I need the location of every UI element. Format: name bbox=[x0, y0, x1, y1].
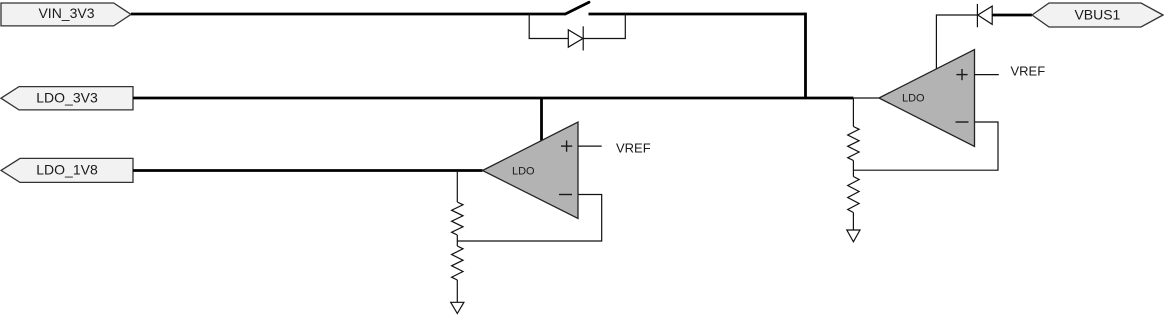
net flag VBUS1 bbox=[1032, 3, 1163, 27]
op-amp U2 (right LDO) bbox=[879, 50, 975, 147]
wire switch right contact to corner bbox=[589, 13, 806, 16]
wire thick branch into left op-amp bbox=[540, 98, 543, 141]
wire left divider top leg bbox=[456, 171, 458, 203]
svg-text:LDO: LDO bbox=[902, 93, 925, 105]
wire right feedback (minus input to divider tap) bbox=[853, 122, 998, 170]
svg-text:VBUS1: VBUS1 bbox=[1074, 7, 1120, 23]
op-amp U1 (left LDO) bbox=[483, 122, 579, 219]
net flag LDO_3V3 bbox=[1, 87, 133, 110]
wire right op-amp top branch bbox=[936, 15, 977, 70]
wire VREF stub (left) bbox=[578, 145, 602, 147]
wire thin to right op-amp input bbox=[853, 97, 879, 99]
svg-text:VIN_3V3: VIN_3V3 bbox=[38, 5, 94, 21]
diode D1 (bypass) bbox=[568, 26, 583, 50]
switch S1 blade bbox=[566, 2, 589, 14]
resistor R3 (right top) bbox=[848, 127, 859, 161]
wire right divider top leg bbox=[852, 98, 854, 127]
resistor R1 (left top) bbox=[452, 202, 463, 235]
wire right divider mid leg bbox=[852, 161, 854, 177]
wire LDO_1V8 net bbox=[133, 169, 483, 172]
wire left divider bottom leg bbox=[456, 280, 458, 302]
pin + (U1) bbox=[561, 141, 572, 152]
ground (right) bbox=[847, 230, 860, 242]
net flag LDO_1V8 bbox=[1, 158, 133, 182]
diode D2 (to VBUS1) bbox=[977, 4, 992, 27]
wire left divider mid leg bbox=[456, 235, 458, 246]
wire bypass left vertical bbox=[529, 14, 568, 39]
wire right divider bottom leg bbox=[852, 213, 854, 231]
resistor R4 (right bottom) bbox=[848, 177, 859, 213]
wire vertical drop to LDO_3V3 net bbox=[806, 14, 807, 98]
resistor R2 (left bottom) bbox=[452, 246, 463, 280]
ground (left) bbox=[451, 302, 464, 313]
wire bypass right segment bbox=[583, 14, 625, 39]
svg-text:LDO: LDO bbox=[512, 166, 535, 178]
net flag VIN_3V3 bbox=[1, 3, 131, 26]
wire diode to VBUS1 flag bbox=[992, 14, 1032, 17]
svg-text:VREF: VREF bbox=[1011, 64, 1046, 79]
wire VIN_3V3 net bbox=[131, 13, 566, 16]
pin - (U2) bbox=[956, 121, 969, 123]
svg-text:LDO_1V8: LDO_1V8 bbox=[36, 162, 98, 178]
wire VREF stub (right) bbox=[975, 74, 999, 76]
pin - (U1) bbox=[559, 194, 572, 196]
wire LDO_3V3 net bbox=[133, 97, 853, 100]
wire left feedback (minus input to divider tap) bbox=[457, 195, 601, 242]
svg-text:VREF: VREF bbox=[616, 140, 651, 155]
svg-text:LDO_3V3: LDO_3V3 bbox=[36, 90, 98, 106]
pin + (U2) bbox=[956, 69, 967, 80]
